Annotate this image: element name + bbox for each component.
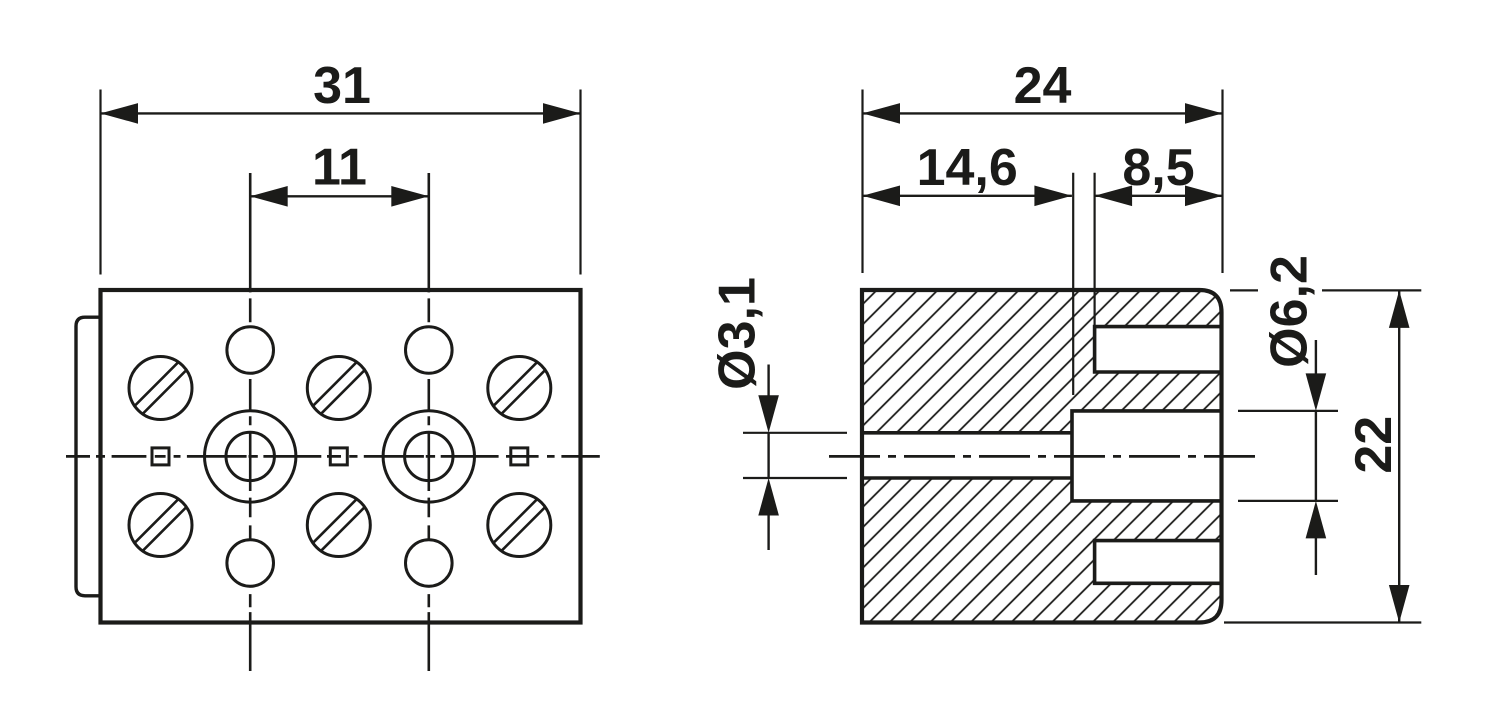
bottom notch outline [1095, 541, 1222, 584]
dimension 24 [863, 57, 1223, 273]
screw circle 4 (bottom row, col 1) [129, 494, 192, 557]
hatched section top block [862, 290, 1222, 433]
dimension 31 [101, 57, 581, 275]
large bore right (outer) [383, 411, 474, 502]
left tab (side latch) [76, 317, 101, 596]
hatched section bottom block [862, 478, 1222, 623]
dimension O3,1 [709, 277, 848, 550]
large bore left (outer) [205, 411, 296, 502]
dimension 8,5 [1095, 139, 1223, 206]
small hole top-left [227, 327, 274, 374]
square marker 1 [152, 448, 169, 465]
square marker 2 [330, 448, 347, 465]
dimension O6,2 [1238, 255, 1338, 575]
dimension 11 [250, 139, 429, 207]
screw circle 3 (top row, col 3) [488, 357, 551, 420]
extension line for 14,6 (into section) [1072, 173, 1074, 395]
svg-text:22: 22 [1345, 416, 1403, 474]
screw circle 2 (top row, col 2) [307, 357, 370, 420]
horizontal centerline right view [829, 455, 1258, 458]
svg-text:8,5: 8,5 [1122, 139, 1194, 197]
small hole bottom-left [227, 540, 274, 587]
svg-text:31: 31 [313, 57, 371, 115]
svg-text:Ø3,1: Ø3,1 [709, 277, 767, 390]
vertical centerline A (x=250) [249, 173, 252, 671]
large bore left (inner) [226, 432, 274, 480]
square marker 3 [511, 448, 528, 465]
dimension 14,6 [863, 139, 1072, 206]
screw circle 5 (bottom row, col 2) [307, 494, 370, 557]
small hole top-right [406, 327, 453, 374]
screw circle 6 (bottom row, col 3) [488, 494, 551, 557]
svg-text:Ø6,2: Ø6,2 [1261, 255, 1319, 368]
center bore slot top line [862, 431, 1072, 435]
svg-text:24: 24 [1014, 57, 1072, 115]
screw circle 1 (top row, col 1) [129, 357, 192, 420]
small hole bottom-right [406, 540, 453, 587]
center bore slot bottom line [862, 476, 1072, 480]
top notch outline [1095, 327, 1222, 372]
svg-text:11: 11 [312, 139, 367, 197]
counterbore outline [1072, 411, 1222, 501]
large bore right (inner) [405, 432, 453, 480]
svg-text:14,6: 14,6 [917, 139, 1018, 197]
body outline right view [862, 290, 1222, 623]
dimension 22 [1224, 290, 1421, 622]
vertical centerline B (x=428.8) [427, 173, 430, 671]
extension line for 8,5 (into section) [1093, 173, 1095, 327]
horizontal centerline left view [66, 455, 600, 458]
body outline left view [101, 290, 581, 623]
